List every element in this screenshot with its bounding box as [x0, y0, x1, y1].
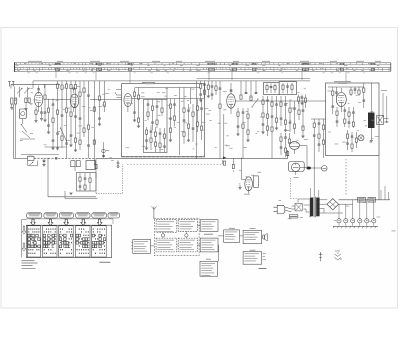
- block AF2 box: [200, 238, 218, 252]
- resistor chain: [196, 99, 198, 132]
- mixer node: [161, 233, 164, 239]
- resistor group: [297, 95, 306, 109]
- capacitor C21: [42, 158, 45, 166]
- wire: [197, 78, 311, 158]
- wire: [179, 88, 181, 156]
- section arrows: [31, 219, 102, 225]
- resistor: [240, 93, 257, 101]
- tube V2: [70, 88, 79, 108]
- resistor chain: [173, 99, 176, 126]
- capacitor C20: [56, 156, 57, 162]
- osc dense cluster: [145, 127, 166, 152]
- resistor R12 chain: [87, 81, 90, 158]
- speaker icon: [262, 233, 268, 240]
- wire: [73, 106, 75, 112]
- resistor R15 chain: [103, 81, 105, 112]
- IF link: [90, 99, 122, 100]
- resistor R9: [69, 81, 72, 147]
- pilot lamp: [358, 135, 364, 141]
- wire: [132, 88, 205, 99]
- wire top rail left: [11, 81, 80, 89]
- filter choke 2: [368, 197, 375, 202]
- block outer dashed: [154, 218, 199, 256]
- wire: [241, 158, 245, 179]
- resistor R14 chain: [98, 81, 101, 126]
- main hum bus: [98, 157, 288, 160]
- resistor R4 chain: [47, 99, 50, 134]
- strip drop wires: [56, 71, 346, 83]
- discriminator cluster: [183, 104, 195, 144]
- header rail: [26, 218, 113, 224]
- block AF box: [178, 238, 197, 252]
- resistor R6 chain: [61, 81, 64, 148]
- wire: [320, 200, 343, 213]
- block wiring: [218, 236, 221, 263]
- driver cluster: [280, 133, 291, 157]
- hum loop routing: [95, 159, 226, 193]
- wire: [298, 199, 310, 212]
- block speaker box: [243, 228, 262, 243]
- magic eye tube V6: [238, 176, 258, 195]
- driver stage cluster: [311, 101, 326, 158]
- wire mid rail: [45, 99, 71, 147]
- wire: [15, 87, 28, 98]
- AVC bus: [13, 158, 97, 159]
- resistor R3 chain: [43, 84, 46, 122]
- block psu box: [243, 250, 266, 264]
- box bottom bus: [122, 156, 205, 158]
- speaker secondary: [377, 116, 389, 125]
- resistor R5 chain: [56, 81, 59, 150]
- block RF box: [156, 220, 177, 233]
- label FM unit: [142, 82, 155, 84]
- output stage box: [326, 83, 380, 155]
- resistor R7 chain: [65, 81, 68, 158]
- page number: [392, 230, 396, 233]
- ground bus: [333, 226, 378, 228]
- contact marks: [28, 228, 106, 254]
- dial lamp wires: [381, 90, 387, 123]
- band switch S1: [60, 127, 67, 141]
- rectifier bridge: [327, 199, 339, 210]
- output transformer T2: [368, 83, 375, 128]
- grid cap: [226, 90, 232, 91]
- dial cord strip: [15, 61, 392, 73]
- det chains: [236, 108, 249, 158]
- capacitor C8 chain: [51, 99, 54, 150]
- feedback network: [65, 173, 98, 199]
- wire: [38, 107, 40, 112]
- block gram box: [200, 259, 218, 276]
- figure 2 label: [259, 267, 267, 270]
- block input box: [131, 240, 154, 254]
- resistor chain: [161, 100, 163, 117]
- wire: [241, 81, 256, 96]
- trimmer chain: [147, 100, 150, 121]
- capacitor: [40, 107, 43, 120]
- B+ vertical: [378, 155, 380, 199]
- resistor chain: [156, 100, 159, 129]
- resistor R11 chain: [83, 81, 85, 137]
- resistor: [232, 164, 234, 171]
- wire left drop: [12, 104, 14, 158]
- wire: [370, 124, 379, 155]
- block antenna: [151, 206, 156, 219]
- block OSC box: [156, 238, 177, 252]
- screen resistor group: [350, 87, 360, 96]
- wire: [224, 114, 234, 164]
- component value labels: [14, 86, 380, 221]
- FM unit box: [122, 84, 205, 157]
- screen chain: [363, 83, 366, 108]
- resistor chain: [336, 107, 355, 128]
- tube V3: [124, 94, 132, 113]
- wire arrows blocks: [177, 226, 200, 245]
- resistor R10 chain: [79, 87, 82, 150]
- transformer feed wires: [311, 188, 319, 197]
- wire: [235, 100, 325, 102]
- tone switch: [335, 251, 342, 260]
- tuning capacitor arrows: [17, 88, 30, 94]
- tube V5: [336, 88, 346, 112]
- pilot circle: [322, 166, 328, 172]
- grid components: [328, 87, 364, 114]
- resistor R13: [93, 107, 95, 144]
- contact table frame: [26, 225, 111, 257]
- resistor: [34, 107, 37, 122]
- detector switch: [251, 98, 258, 107]
- resistor chain: [280, 96, 305, 138]
- resistor group: [199, 81, 221, 158]
- wire: [167, 88, 191, 105]
- side resistor: [102, 142, 110, 158]
- on-off switch: [319, 252, 323, 261]
- filter blocks: [71, 161, 95, 172]
- mixer node 2: [185, 231, 188, 238]
- IF transformer T1: [264, 82, 297, 95]
- resistor chain: [133, 88, 136, 122]
- label AM-FM: [204, 233, 213, 236]
- resistor chain: [137, 88, 140, 128]
- block IF box: [178, 220, 197, 232]
- dense AVC cluster: [261, 96, 278, 158]
- fuse box: [289, 215, 298, 218]
- connector plug: [306, 167, 311, 170]
- coupling box: [19, 109, 59, 155]
- wire: [300, 150, 322, 196]
- block output box: [218, 228, 243, 242]
- resistor chain: [169, 99, 172, 142]
- block demod box: [200, 220, 218, 232]
- wire: [288, 146, 307, 167]
- voltage selector: [292, 203, 303, 211]
- potentiometer loop: [28, 161, 38, 166]
- label output box: [334, 81, 351, 83]
- cathode cluster: [346, 130, 357, 152]
- tube V7: [290, 142, 300, 154]
- oscillator sub-box: [144, 100, 168, 153]
- tube V8 socket: [289, 162, 305, 178]
- resistor chain: [200, 99, 203, 140]
- capacitor C12: [74, 81, 77, 152]
- mains plug: [274, 205, 292, 213]
- figure label: [100, 261, 111, 264]
- wafer index arrows: [22, 220, 27, 258]
- resistor above bus end: [287, 150, 289, 158]
- FM aerial: [115, 89, 122, 97]
- filter capacitors: [337, 200, 376, 226]
- heater dashed wire: [291, 178, 299, 199]
- antenna coil L1: [10, 98, 30, 158]
- wire right drop: [93, 81, 95, 165]
- wire HT rail: [33, 80, 310, 82]
- volume control box: [28, 155, 35, 161]
- coil chain: [151, 100, 154, 131]
- mains dashed link: [345, 159, 347, 196]
- filter choke: [358, 197, 366, 202]
- B+ rail: [339, 200, 390, 204]
- switch position labels: [27, 213, 120, 218]
- power transformer T3: [310, 197, 320, 218]
- wire: [48, 158, 96, 197]
- tube V1: [34, 86, 42, 107]
- heater wires: [381, 186, 389, 200]
- table caption: [22, 260, 38, 269]
- marks below box corner: [110, 158, 115, 161]
- tube V4: [227, 83, 236, 114]
- aerial terminals: [8, 82, 14, 87]
